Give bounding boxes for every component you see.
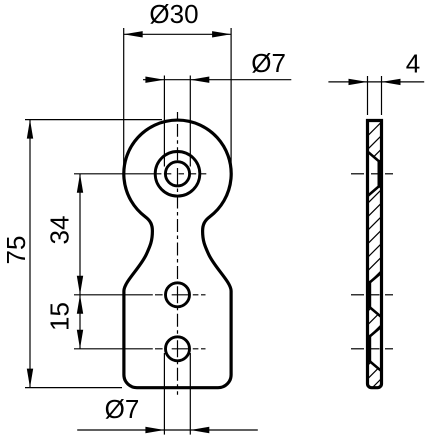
dim 75 extension lines bbox=[25, 119, 162, 121]
plate outline front view bbox=[124, 120, 231, 388]
dim Ø30 extension lines bbox=[123, 28, 125, 171]
svg-text:34: 34 bbox=[45, 216, 75, 245]
hole centerline top bbox=[74, 173, 206, 175]
side view bottom hole section bbox=[368, 327, 382, 372]
dim 4 line bbox=[328, 81, 424, 83]
side view hatching bbox=[364, 105, 385, 410]
svg-text:75: 75 bbox=[1, 236, 31, 265]
bottom hole bbox=[166, 337, 190, 361]
dim Ø7 top line bbox=[143, 79, 291, 81]
dim Ø7 bottom extension lines bbox=[163, 353, 165, 435]
hole centerline middle bbox=[74, 294, 206, 296]
dim Ø7 top extension lines bbox=[163, 76, 165, 167]
dim 75 line bbox=[29, 120, 31, 388]
top hole bbox=[165, 162, 189, 186]
dim Ø7 bottom line bbox=[77, 429, 258, 431]
dim 4 extension lines bbox=[367, 76, 369, 115]
side view top hole countersink section bbox=[368, 152, 382, 197]
svg-text:4: 4 bbox=[406, 49, 420, 79]
countersink circle top hole bbox=[155, 152, 200, 197]
side view centerline top hole bbox=[351, 173, 393, 175]
vertical centerline bbox=[177, 112, 179, 395]
hole centerline bottom bbox=[74, 348, 206, 350]
svg-text:15: 15 bbox=[45, 302, 75, 331]
side view middle hole section bbox=[368, 273, 382, 318]
middle hole bbox=[166, 283, 190, 307]
svg-text:Ø7: Ø7 bbox=[251, 48, 286, 78]
side view centerline bottom hole bbox=[351, 348, 393, 350]
side view centerline middle hole bbox=[351, 294, 393, 296]
svg-text:Ø7: Ø7 bbox=[105, 394, 140, 424]
dim 34 line bbox=[79, 174, 81, 295]
dim 15 line bbox=[79, 295, 81, 349]
svg-text:Ø30: Ø30 bbox=[149, 0, 198, 29]
side view outline bbox=[368, 121, 382, 388]
dim Ø30 line bbox=[124, 33, 231, 35]
